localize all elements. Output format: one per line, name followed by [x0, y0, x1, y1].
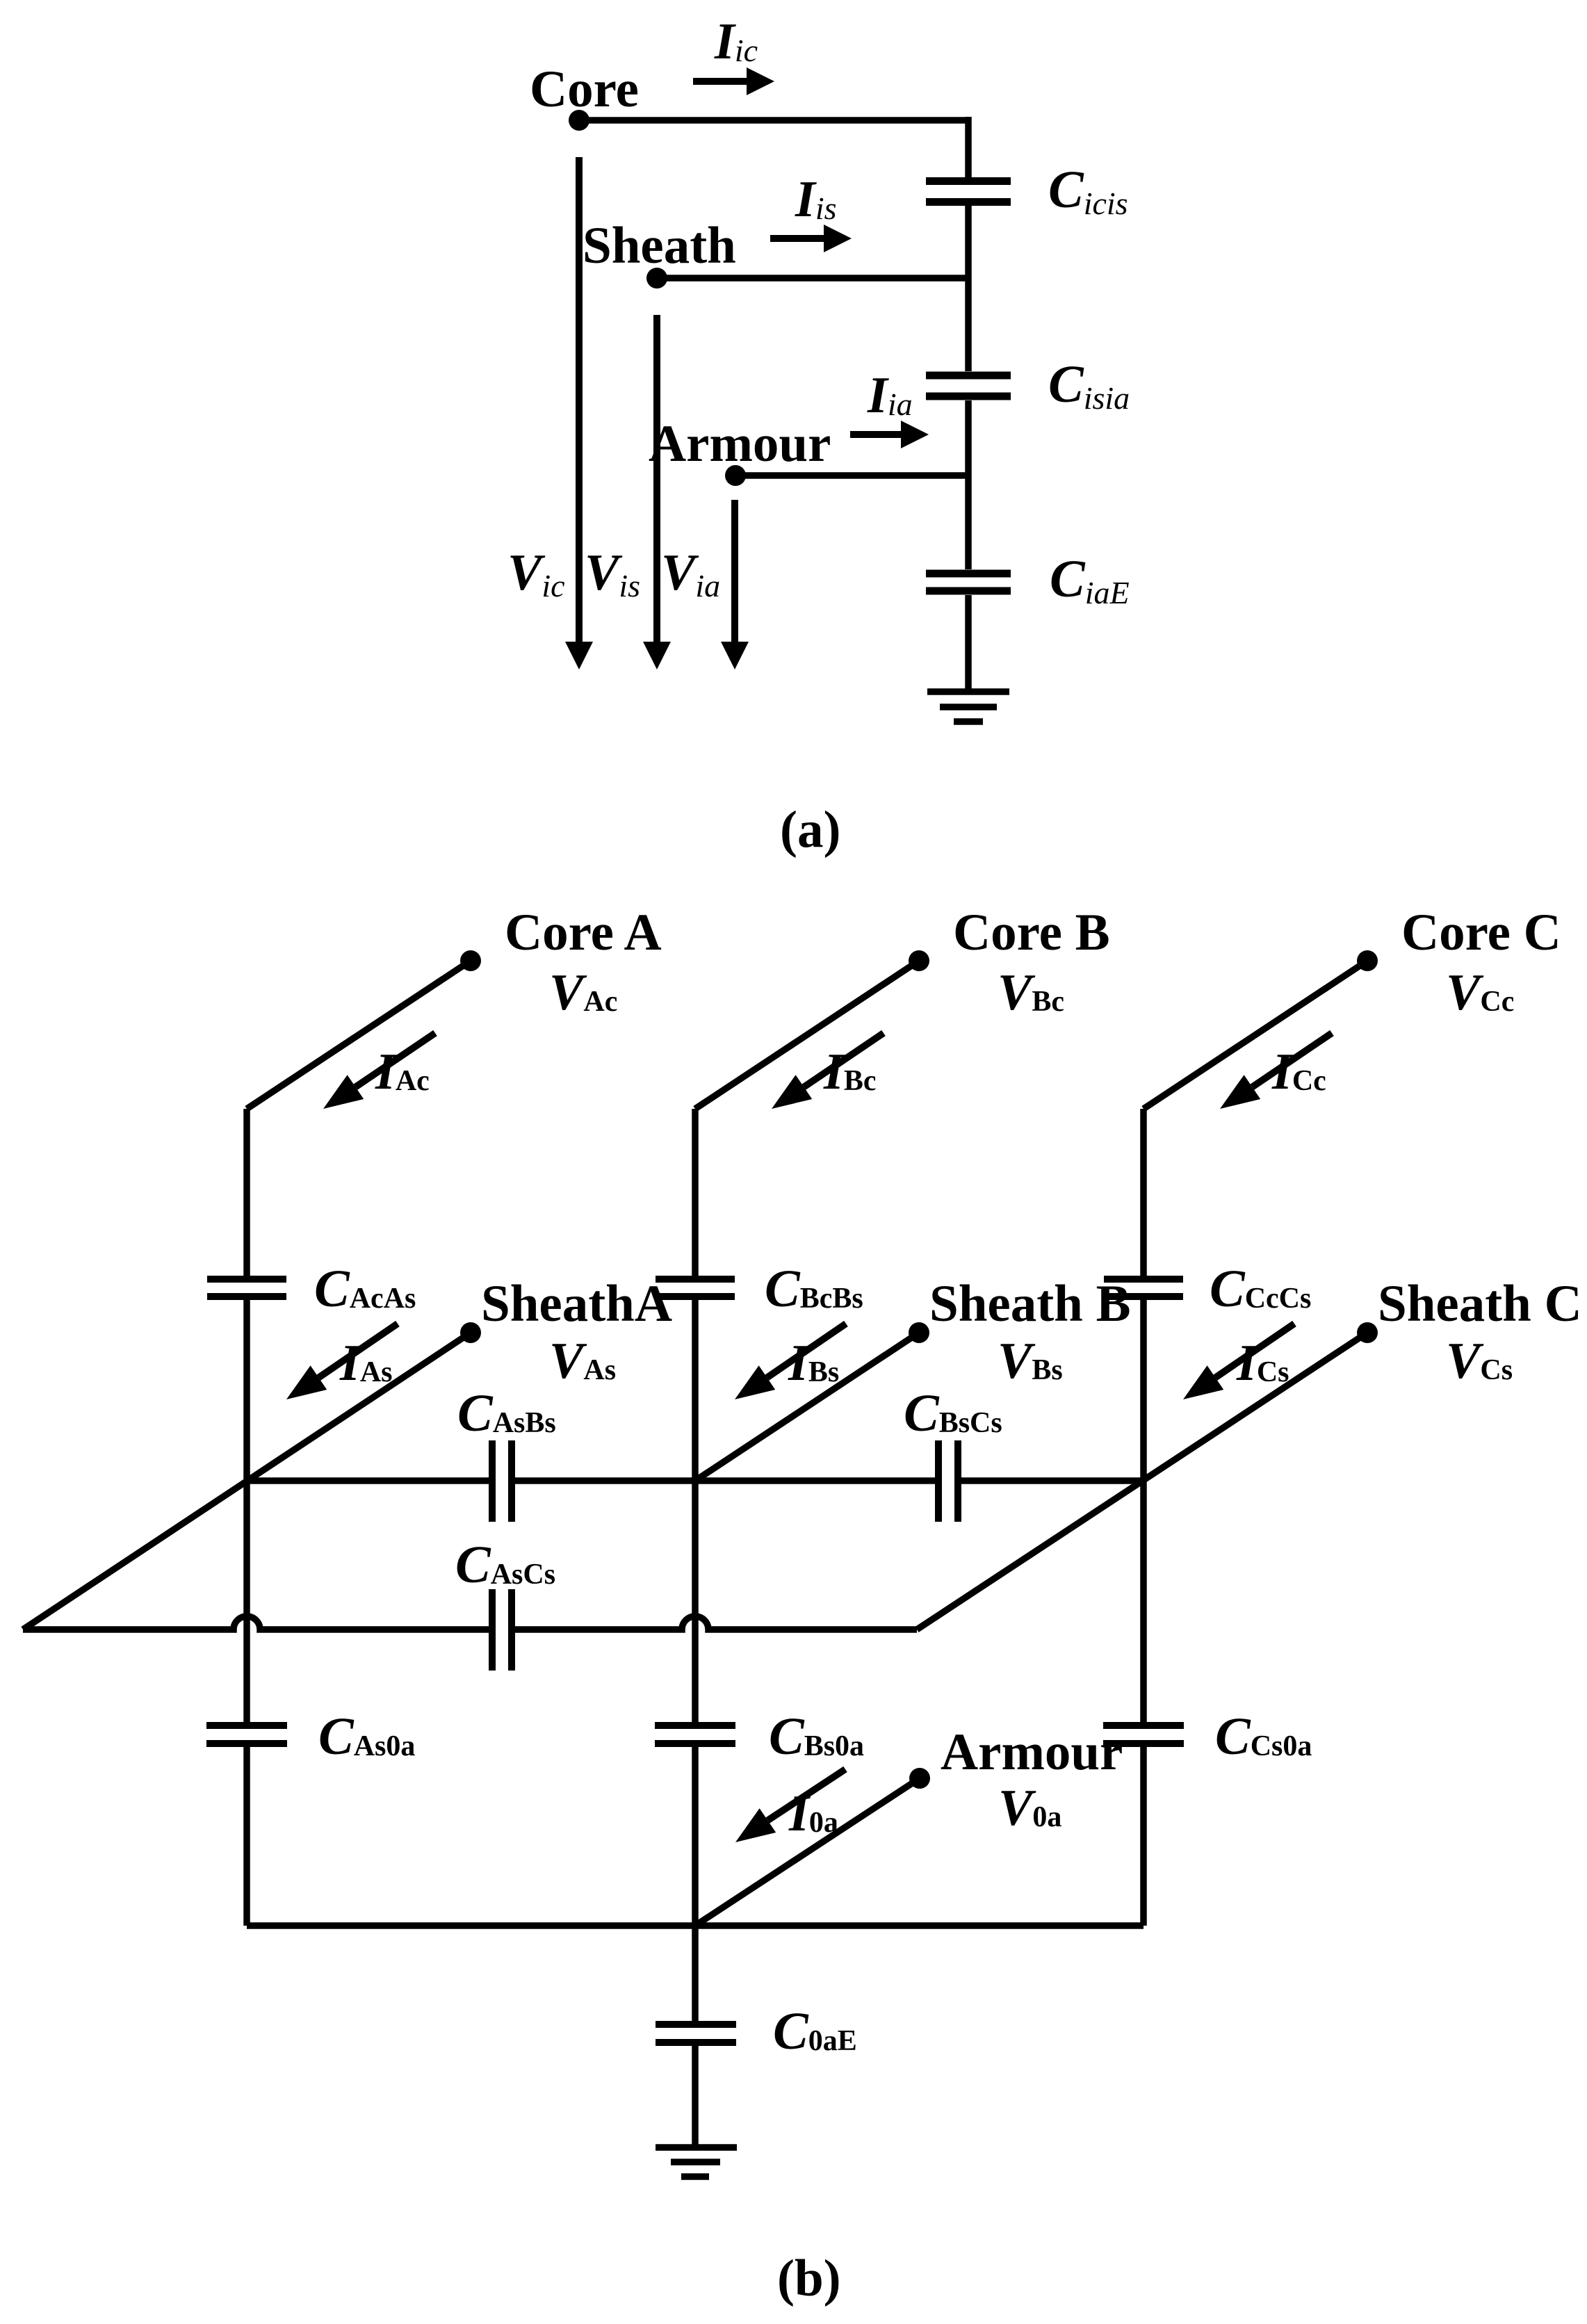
svg-text:Core A: Core A: [505, 904, 662, 961]
svg-text:(a): (a): [780, 801, 840, 859]
svg-text:Armour: Armour: [649, 415, 831, 473]
svg-text:Core: Core: [530, 60, 639, 118]
svg-text:SheathA: SheathA: [481, 1275, 672, 1333]
svg-text:Core C: Core C: [1401, 904, 1561, 961]
svg-text:Sheath: Sheath: [583, 217, 736, 275]
svg-text:Sheath C: Sheath C: [1378, 1275, 1582, 1333]
svg-text:Core B: Core B: [953, 904, 1110, 961]
svg-text:Armour: Armour: [941, 1723, 1123, 1781]
svg-text:Sheath B: Sheath B: [929, 1275, 1131, 1333]
svg-text:(b): (b): [777, 2250, 841, 2307]
